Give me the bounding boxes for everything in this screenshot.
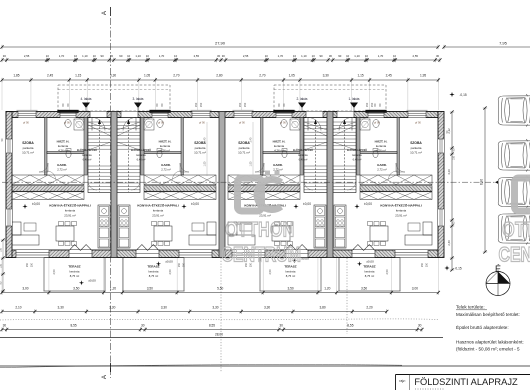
svg-text:kerámia: kerámia [149, 269, 159, 273]
svg-text:10: 10 [293, 54, 297, 58]
svg-text:30: 30 [3, 323, 7, 327]
svg-text:TERASZ: TERASZ [147, 265, 159, 269]
svg-text:90: 90 [101, 54, 105, 58]
svg-text:1,70: 1,70 [278, 54, 284, 58]
svg-text:3,30: 3,30 [161, 305, 167, 309]
svg-text:2,72 m²: 2,72 m² [377, 168, 387, 172]
svg-text:-0,15: -0,15 [459, 93, 466, 97]
svg-text:kerámia: kerámia [352, 153, 362, 157]
svg-text:2,55: 2,55 [24, 54, 30, 58]
svg-text:150: 150 [365, 102, 369, 107]
svg-text:8,75 m²: 8,75 m² [365, 274, 375, 278]
svg-text:8,75 m²: 8,75 m² [149, 274, 159, 278]
svg-text:KONYHA-ÉTKEZŐ-NAPPALI: KONYHA-ÉTKEZŐ-NAPPALI [380, 203, 422, 208]
svg-text:10,71 m²: 10,71 m² [194, 151, 206, 155]
svg-text:30: 30 [3, 54, 7, 58]
svg-text:TERASZ: TERASZ [68, 265, 80, 269]
svg-text:8,55: 8,55 [70, 323, 76, 327]
svg-text:8,90: 8,90 [480, 179, 484, 185]
svg-text:1,20: 1,20 [324, 286, 330, 290]
svg-text:150: 150 [243, 102, 247, 107]
svg-text:4,26 m²: 4,26 m² [160, 148, 170, 152]
svg-text:6,40 m²: 6,40 m² [353, 158, 362, 162]
svg-text:±0,00: ±0,00 [301, 257, 309, 261]
svg-text:10: 10 [393, 54, 397, 58]
svg-text:8,75 m²: 8,75 m² [70, 274, 80, 278]
svg-text:10: 10 [93, 54, 97, 58]
svg-text:3,50: 3,50 [73, 286, 79, 290]
svg-text:6,40 m²: 6,40 m² [299, 158, 308, 162]
svg-text:8,55: 8,55 [347, 323, 353, 327]
svg-text:kerámia: kerámia [274, 144, 285, 148]
svg-text:ELŐTÉR+LÉPCSŐ: ELŐTÉR+LÉPCSŐ [347, 149, 367, 152]
svg-text:±0,00: ±0,00 [191, 202, 199, 206]
svg-text:3. lakás: 3. lakás [133, 97, 144, 101]
svg-text:SZOBA: SZOBA [410, 141, 422, 145]
svg-text:8,55: 8,55 [209, 323, 215, 327]
svg-text:23,91 m²: 23,91 m² [395, 214, 406, 218]
svg-text:2,50: 2,50 [385, 269, 389, 275]
svg-text:HÁZT. H.: HÁZT. H. [375, 139, 388, 144]
svg-text:HÁZT. H.: HÁZT. H. [159, 139, 172, 144]
svg-text:pf 90: pf 90 [280, 121, 286, 125]
svg-text:1,15: 1,15 [75, 74, 81, 78]
svg-text:Épület bruttó alapterülete:: Épület bruttó alapterülete: [456, 324, 509, 330]
svg-text:SZOBA: SZOBA [22, 141, 34, 145]
svg-text:pf 90: pf 90 [23, 121, 29, 125]
svg-text:10: 10 [312, 54, 316, 58]
svg-text:2,50: 2,50 [268, 269, 272, 275]
svg-text:kerámia: kerámia [153, 209, 164, 213]
svg-text:HÁZT. H.: HÁZT. H. [57, 139, 70, 144]
svg-text:-0,15: -0,15 [454, 267, 461, 271]
svg-text:±0,00: ±0,00 [165, 260, 173, 264]
svg-text:30: 30 [436, 54, 440, 58]
svg-text:5,50: 5,50 [217, 286, 223, 290]
svg-text:FÖLDSZINTI ALAPRAJZ: FÖLDSZINTI ALAPRAJZ [414, 377, 518, 387]
svg-text:10: 10 [365, 54, 369, 58]
svg-text:CENTRUM: CENTRUM [221, 243, 301, 267]
svg-text:150: 150 [26, 262, 29, 267]
svg-text:30: 30 [279, 323, 283, 327]
svg-text:10: 10 [346, 54, 350, 58]
svg-text:2,45: 2,45 [47, 74, 53, 78]
svg-text:6,40 m²: 6,40 m² [83, 158, 92, 162]
svg-text:10,71 m²: 10,71 m² [238, 151, 250, 155]
svg-text:28,00: 28,00 [215, 333, 223, 337]
svg-text:pf 90: pf 90 [64, 121, 70, 125]
svg-text:GARD.: GARD. [273, 163, 283, 167]
svg-text:1,10: 1,10 [301, 54, 307, 58]
svg-text:TERASZ: TERASZ [363, 265, 375, 269]
svg-text:rajz:: rajz: [399, 379, 405, 383]
svg-text:150: 150 [194, 102, 198, 107]
svg-text:1,10: 1,10 [82, 54, 88, 58]
svg-text:2,55: 2,55 [243, 54, 249, 58]
svg-text:Telek területe:: Telek területe: [456, 305, 485, 310]
svg-text:4,26 m²: 4,26 m² [274, 148, 284, 152]
svg-text:150: 150 [453, 155, 456, 160]
svg-text:90: 90 [319, 54, 323, 58]
svg-text:150: 150 [238, 102, 242, 107]
svg-text:KONYHA-ÉTKEZŐ-NAPPALI: KONYHA-ÉTKEZŐ-NAPPALI [49, 203, 91, 208]
svg-text:23,91 m²: 23,91 m² [64, 214, 75, 218]
svg-text:2,40: 2,40 [250, 137, 253, 142]
svg-text:30: 30 [329, 54, 333, 58]
svg-text:30: 30 [418, 323, 422, 327]
svg-text:OTTHON: OTTHON [502, 218, 530, 242]
svg-text:±0,00: ±0,00 [364, 202, 372, 206]
svg-text:1,00: 1,00 [250, 161, 253, 166]
svg-text:2,70: 2,70 [173, 74, 179, 78]
svg-text:1,10: 1,10 [135, 54, 141, 58]
svg-text:3,50: 3,50 [287, 286, 293, 290]
svg-text:1,00: 1,00 [204, 161, 207, 166]
svg-text:3,30: 3,30 [109, 305, 115, 309]
svg-text:150: 150 [178, 262, 181, 267]
svg-text:±0,00: ±0,00 [303, 202, 311, 206]
svg-text:CENTRUM: CENTRUM [498, 243, 530, 267]
svg-text:1. lakás: 1. lakás [349, 97, 360, 101]
svg-text:2. lakás: 2. lakás [297, 97, 308, 101]
svg-text:parketta: parketta [411, 146, 422, 150]
svg-text:pf 90: pf 90 [374, 121, 380, 125]
svg-text:pf 90: pf 90 [239, 121, 245, 125]
svg-text:2,20: 2,20 [366, 305, 372, 309]
svg-text:150: 150 [370, 102, 374, 107]
svg-text:pf 90: pf 90 [199, 121, 205, 125]
svg-text:parketta: parketta [195, 146, 206, 150]
svg-text:1,70: 1,70 [59, 54, 65, 58]
svg-text:2,80: 2,80 [216, 74, 222, 78]
svg-text:4,26 m²: 4,26 m² [376, 148, 386, 152]
svg-text:2,70: 2,70 [259, 74, 265, 78]
svg-text:150: 150 [426, 262, 429, 267]
svg-text:2,10: 2,10 [15, 305, 21, 309]
svg-text:HÁZT. H.: HÁZT. H. [273, 139, 286, 144]
svg-text:3,00: 3,00 [412, 286, 418, 290]
svg-text:GARD.: GARD. [161, 163, 171, 167]
svg-text:7,95: 7,95 [499, 40, 508, 45]
svg-text:GARD.: GARD. [57, 163, 67, 167]
svg-text:kerámia: kerámia [160, 144, 171, 148]
svg-text:3,30: 3,30 [110, 74, 116, 78]
svg-text:4. lakás: 4. lakás [81, 97, 92, 101]
svg-text:10: 10 [174, 54, 178, 58]
svg-text:kerámia: kerámia [376, 144, 387, 148]
svg-text:90: 90 [338, 54, 342, 58]
svg-text:kerámia: kerámia [136, 153, 146, 157]
svg-text:2,45: 2,45 [386, 74, 392, 78]
svg-text:3,30: 3,30 [323, 74, 329, 78]
svg-text:2,55: 2,55 [413, 54, 419, 58]
svg-text:parketta: parketta [23, 146, 34, 150]
svg-text:150: 150 [199, 102, 203, 107]
svg-text:30: 30 [217, 54, 221, 58]
svg-text:±0,00: ±0,00 [32, 202, 40, 206]
svg-text:kerámia: kerámia [298, 153, 308, 157]
svg-text:4,20: 4,20 [447, 169, 451, 175]
svg-text:1,20: 1,20 [110, 286, 116, 290]
svg-text:±0,00: ±0,00 [366, 260, 374, 264]
svg-text:KONYHA-ÉTKEZŐ-NAPPALI: KONYHA-ÉTKEZŐ-NAPPALI [137, 203, 179, 208]
svg-text:3,30: 3,30 [212, 305, 218, 309]
svg-text:ELŐTÉR+LÉPCSŐ: ELŐTÉR+LÉPCSŐ [77, 149, 97, 152]
svg-text:27,90: 27,90 [215, 40, 226, 45]
svg-text:Maximálisan beépíthető terület: Maximálisan beépíthető terület: [456, 312, 520, 317]
svg-text:1,05: 1,05 [144, 74, 150, 78]
svg-text:150: 150 [0, 263, 2, 268]
svg-text:kerámia: kerámia [82, 153, 92, 157]
svg-text:3,50: 3,50 [147, 286, 153, 290]
svg-text:pf 90: pf 90 [415, 121, 421, 125]
svg-text:OTTHON: OTTHON [225, 218, 294, 242]
svg-text:2,72 m²: 2,72 m² [57, 168, 67, 172]
svg-text:kerámia: kerámia [65, 209, 76, 213]
svg-text:kerámia: kerámia [365, 269, 375, 273]
svg-text:kerámia: kerámia [286, 269, 296, 273]
svg-text:1,70: 1,70 [378, 54, 384, 58]
svg-text:10: 10 [74, 54, 78, 58]
svg-text:3,30: 3,30 [58, 305, 64, 309]
svg-text:3,30: 3,30 [264, 305, 270, 309]
svg-text:ELŐTÉR+LÉPCSŐ: ELŐTÉR+LÉPCSŐ [131, 149, 151, 152]
svg-text:10: 10 [146, 54, 150, 58]
svg-text:2,40: 2,40 [204, 137, 207, 142]
svg-text:kerámia: kerámia [396, 209, 407, 213]
svg-text:1,15: 1,15 [357, 74, 363, 78]
svg-text:150: 150 [421, 262, 424, 267]
svg-text:6,40 m²: 6,40 m² [137, 158, 146, 162]
svg-text:kerámia: kerámia [70, 269, 80, 273]
svg-text:150: 150 [0, 247, 2, 252]
svg-text:10: 10 [127, 54, 131, 58]
svg-text:kerámia: kerámia [58, 144, 69, 148]
svg-text:23,91 m²: 23,91 m² [152, 214, 163, 218]
svg-text:2,72 m²: 2,72 m² [161, 168, 171, 172]
svg-text:Hasznos alapterület lakásonkén: Hasznos alapterület lakásonként: [456, 340, 524, 345]
svg-text:23,91 m²: 23,91 m² [259, 214, 270, 218]
svg-text:150: 150 [183, 262, 186, 267]
svg-text:ELŐTÉR+LÉPCSŐ: ELŐTÉR+LÉPCSŐ [293, 149, 313, 152]
svg-text:GARD.: GARD. [377, 163, 387, 167]
svg-text:10,71 m²: 10,71 m² [410, 151, 422, 155]
svg-text:3,80: 3,80 [320, 305, 326, 309]
svg-text:3,50: 3,50 [361, 286, 367, 290]
svg-text:3,00: 3,00 [22, 286, 28, 290]
svg-text:2,55: 2,55 [194, 54, 200, 58]
svg-text:30: 30 [141, 323, 145, 327]
svg-text:1,05: 1,05 [289, 74, 295, 78]
svg-text:10,71 m²: 10,71 m² [22, 151, 34, 155]
svg-text:1,70: 1,70 [159, 54, 165, 58]
svg-text:4,26 m²: 4,26 m² [58, 148, 68, 152]
svg-text:parketta: parketta [239, 146, 250, 150]
svg-text:150: 150 [31, 262, 34, 267]
svg-text:90: 90 [119, 54, 123, 58]
svg-text:10: 10 [46, 54, 50, 58]
svg-text:±0,00: ±0,00 [88, 279, 96, 283]
svg-text:10: 10 [265, 54, 269, 58]
svg-text:1,10: 1,10 [354, 54, 360, 58]
svg-text:1,95: 1,95 [420, 74, 426, 78]
svg-text:30: 30 [222, 54, 226, 58]
svg-text:2,40: 2,40 [447, 240, 451, 246]
svg-text:2,50: 2,50 [52, 269, 56, 275]
svg-text:2,50: 2,50 [168, 269, 172, 275]
svg-text:1,85: 1,85 [13, 74, 19, 78]
svg-text:8,75 m²: 8,75 m² [286, 274, 296, 278]
svg-text:(földszint - 50,08 m²; emelet: (földszint - 50,08 m²; emelet - 5 [456, 347, 520, 352]
svg-text:pf 90: pf 90 [158, 121, 164, 125]
